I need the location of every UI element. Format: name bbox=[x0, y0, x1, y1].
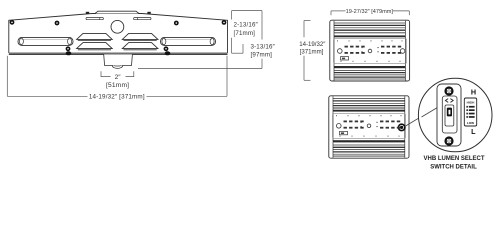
svg-text:HIGH: HIGH bbox=[467, 101, 476, 105]
svg-text:14-19/32″: 14-19/32″ bbox=[299, 41, 326, 48]
svg-text:SWITCH DETAIL: SWITCH DETAIL bbox=[430, 165, 477, 171]
svg-text:L: L bbox=[471, 127, 476, 136]
svg-text:3-13/16″: 3-13/16″ bbox=[251, 43, 276, 50]
svg-text:[71mm]: [71mm] bbox=[234, 30, 256, 37]
svg-text:[51mm]: [51mm] bbox=[106, 82, 129, 89]
svg-text:[97mm]: [97mm] bbox=[251, 52, 273, 59]
svg-text:H: H bbox=[471, 87, 476, 96]
svg-text:14-19/32″ [371mm]: 14-19/32″ [371mm] bbox=[89, 93, 145, 100]
svg-text:2″: 2″ bbox=[115, 74, 122, 81]
svg-text:VHB LUMEN SELECT: VHB LUMEN SELECT bbox=[423, 156, 484, 162]
svg-text:2-13/16″: 2-13/16″ bbox=[234, 22, 259, 29]
svg-text:[371mm]: [371mm] bbox=[300, 49, 324, 56]
svg-text:19-27/32″ [479mm]: 19-27/32″ [479mm] bbox=[346, 9, 394, 15]
svg-text:LOW: LOW bbox=[467, 121, 474, 125]
